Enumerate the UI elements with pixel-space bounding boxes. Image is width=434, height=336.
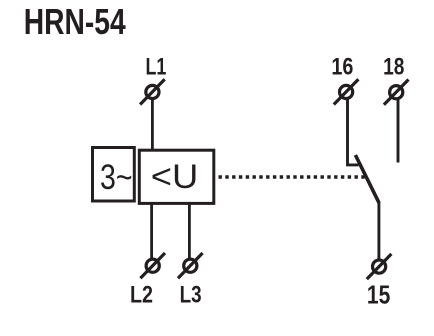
wire arm to 15 <box>377 201 380 259</box>
terminal 16 <box>334 79 359 104</box>
wire 18 open contact <box>397 99 400 162</box>
svg-text:15: 15 <box>367 282 390 310</box>
box 3~ (left section) <box>93 148 135 202</box>
terminal 15 <box>367 254 392 279</box>
box &lt;U (right section) <box>139 150 214 203</box>
svg-text:L3: L3 <box>180 282 202 309</box>
wire L1 to box <box>151 99 154 150</box>
wire box to L2 <box>150 203 153 259</box>
svg-text:16: 16 <box>331 53 353 80</box>
svg-text:L1: L1 <box>146 53 167 80</box>
terminal L3 <box>178 253 203 278</box>
terminal L1 <box>140 79 165 104</box>
svg-text:18: 18 <box>383 53 404 80</box>
svg-text:HRN-54: HRN-54 <box>24 1 126 42</box>
terminal L2 <box>140 253 165 278</box>
svg-text:3~: 3~ <box>100 158 133 197</box>
dotted control link <box>219 175 367 178</box>
wire 16 to fixed contact <box>348 99 359 164</box>
svg-text:L2: L2 <box>130 282 153 309</box>
wire box to L3 <box>188 203 191 259</box>
svg-text:<U: <U <box>151 158 199 196</box>
terminal 18 <box>384 80 409 105</box>
switch arm (movable contact) <box>355 155 379 203</box>
